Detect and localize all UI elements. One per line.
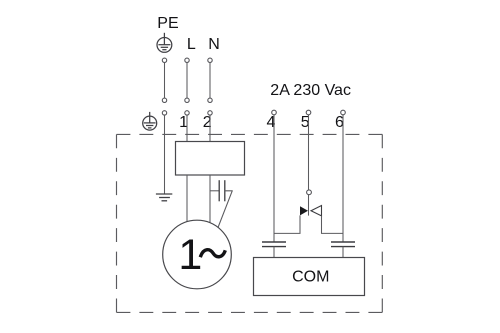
dashed enclosure top edge [117, 133, 383, 135]
wire C2 to COM [273, 247, 275, 258]
terminal circle 4 [272, 110, 277, 115]
gate wire [308, 195, 310, 216]
connector pin PE [162, 98, 166, 102]
triac left leg wire [274, 215, 300, 233]
wire filter to motor (right) [209, 175, 211, 223]
terminal socket 1 [185, 111, 189, 115]
terminal socket PE [162, 111, 166, 115]
protective earth symbol (inside, left of box edge) [143, 112, 157, 130]
wire PE into box [164, 115, 166, 194]
wire terminal 5 down [308, 115, 310, 190]
wire N to filter [209, 115, 211, 141]
dashed enclosure left edge [116, 134, 118, 312]
svg-text:COM: COM [292, 269, 329, 286]
wire C3 to COM [342, 247, 344, 258]
connector pin L [185, 98, 189, 102]
wire L lead [186, 63, 188, 99]
svg-text:1: 1 [178, 231, 202, 279]
tilde of 1~ [200, 250, 225, 258]
svg-text:L: L [187, 36, 196, 53]
dashed enclosure right edge [381, 134, 383, 312]
svg-text:N: N [208, 36, 220, 53]
wire to run capacitor [210, 190, 219, 192]
svg-text:PE: PE [157, 15, 178, 32]
wire terminal 6 down [342, 115, 344, 242]
wire capacitor to motor [218, 191, 232, 228]
motor M1 (single phase) [163, 220, 232, 289]
triac right leg wire [322, 216, 344, 234]
gate connector circle [307, 190, 312, 195]
connector pin N [208, 98, 212, 102]
supply lead L: terminal circle [185, 58, 189, 62]
svg-text:2A 230 Vac: 2A 230 Vac [270, 82, 351, 99]
wire terminal 4 down [273, 115, 275, 242]
terminal socket 2 [208, 111, 212, 115]
terminal circle 6 [341, 110, 346, 115]
capacitor C3 (right) [331, 242, 355, 247]
run capacitor C1 [219, 180, 225, 201]
dashed enclosure bottom edge [117, 311, 383, 313]
wire L to filter [186, 115, 188, 141]
supply lead N: terminal circle [208, 58, 212, 62]
triac left triangle (filled) [300, 206, 308, 215]
ground (chassis earth) [156, 194, 172, 201]
protective earth symbol (top) [157, 33, 172, 53]
wire N lead [209, 63, 211, 99]
wire filter to motor (left) [186, 175, 188, 222]
terminal circle 5 [306, 110, 311, 115]
supply lead PE: terminal circle [162, 58, 166, 62]
filter / terminal block rectangle [176, 142, 245, 176]
capacitor C2 (left) [262, 242, 286, 247]
triac right triangle (open) [311, 206, 322, 216]
wire PE lead [164, 63, 166, 99]
COM box [254, 258, 365, 296]
